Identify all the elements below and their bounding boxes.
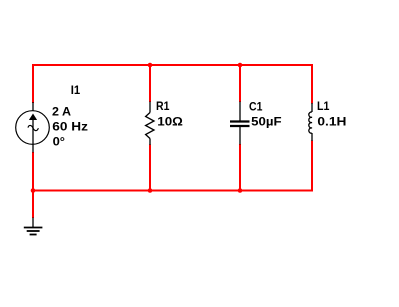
current source I1 bbox=[16, 102, 50, 153]
label 0 deg bbox=[53, 137, 66, 149]
junction bottom C1 bbox=[238, 188, 243, 193]
resistor R1 bbox=[146, 102, 154, 146]
wire L1 branch bottom bbox=[311, 141, 313, 192]
wire C1 branch bottom bbox=[239, 144, 241, 191]
label R1 bbox=[156, 101, 170, 113]
svg-text:R1: R1 bbox=[156, 101, 170, 113]
wire ground stub bbox=[32, 190, 34, 218]
svg-text:C1: C1 bbox=[249, 101, 263, 113]
label I1 bbox=[71, 85, 81, 97]
ground bbox=[24, 218, 43, 235]
svg-text:50µF: 50µF bbox=[251, 117, 281, 129]
svg-text:I1: I1 bbox=[71, 85, 81, 97]
svg-text:L1: L1 bbox=[317, 101, 330, 113]
label L1 bbox=[317, 101, 330, 113]
junction top C1 bbox=[238, 63, 243, 68]
wire left branch top bbox=[32, 64, 34, 103]
wire R1 branch bottom bbox=[149, 145, 151, 192]
inductor L1 bbox=[309, 103, 312, 141]
svg-text:0.1H: 0.1H bbox=[317, 116, 346, 128]
junction top R1 bbox=[148, 63, 153, 68]
capacitor C1 bbox=[230, 102, 250, 145]
wire bottom bus bbox=[32, 190, 313, 192]
label 60 Hz bbox=[52, 122, 88, 134]
label C1 bbox=[249, 101, 263, 113]
label 2 A bbox=[52, 107, 71, 119]
wire top bus bbox=[32, 64, 313, 66]
junction bottom R1 bbox=[148, 188, 153, 193]
svg-text:0°: 0° bbox=[53, 137, 66, 149]
wire C1 branch top bbox=[239, 64, 241, 102]
wire L1 branch top bbox=[311, 64, 313, 104]
svg-text:60 Hz: 60 Hz bbox=[52, 122, 88, 134]
svg-text:2 A: 2 A bbox=[52, 107, 71, 119]
label 50uF bbox=[251, 117, 281, 129]
wire left branch bottom bbox=[32, 152, 34, 191]
wire R1 branch top bbox=[149, 64, 151, 102]
svg-text:10Ω: 10Ω bbox=[157, 117, 183, 129]
label 0.1H bbox=[317, 116, 346, 128]
label 10 ohm bbox=[157, 117, 183, 129]
junction bottom ground bbox=[31, 188, 36, 193]
